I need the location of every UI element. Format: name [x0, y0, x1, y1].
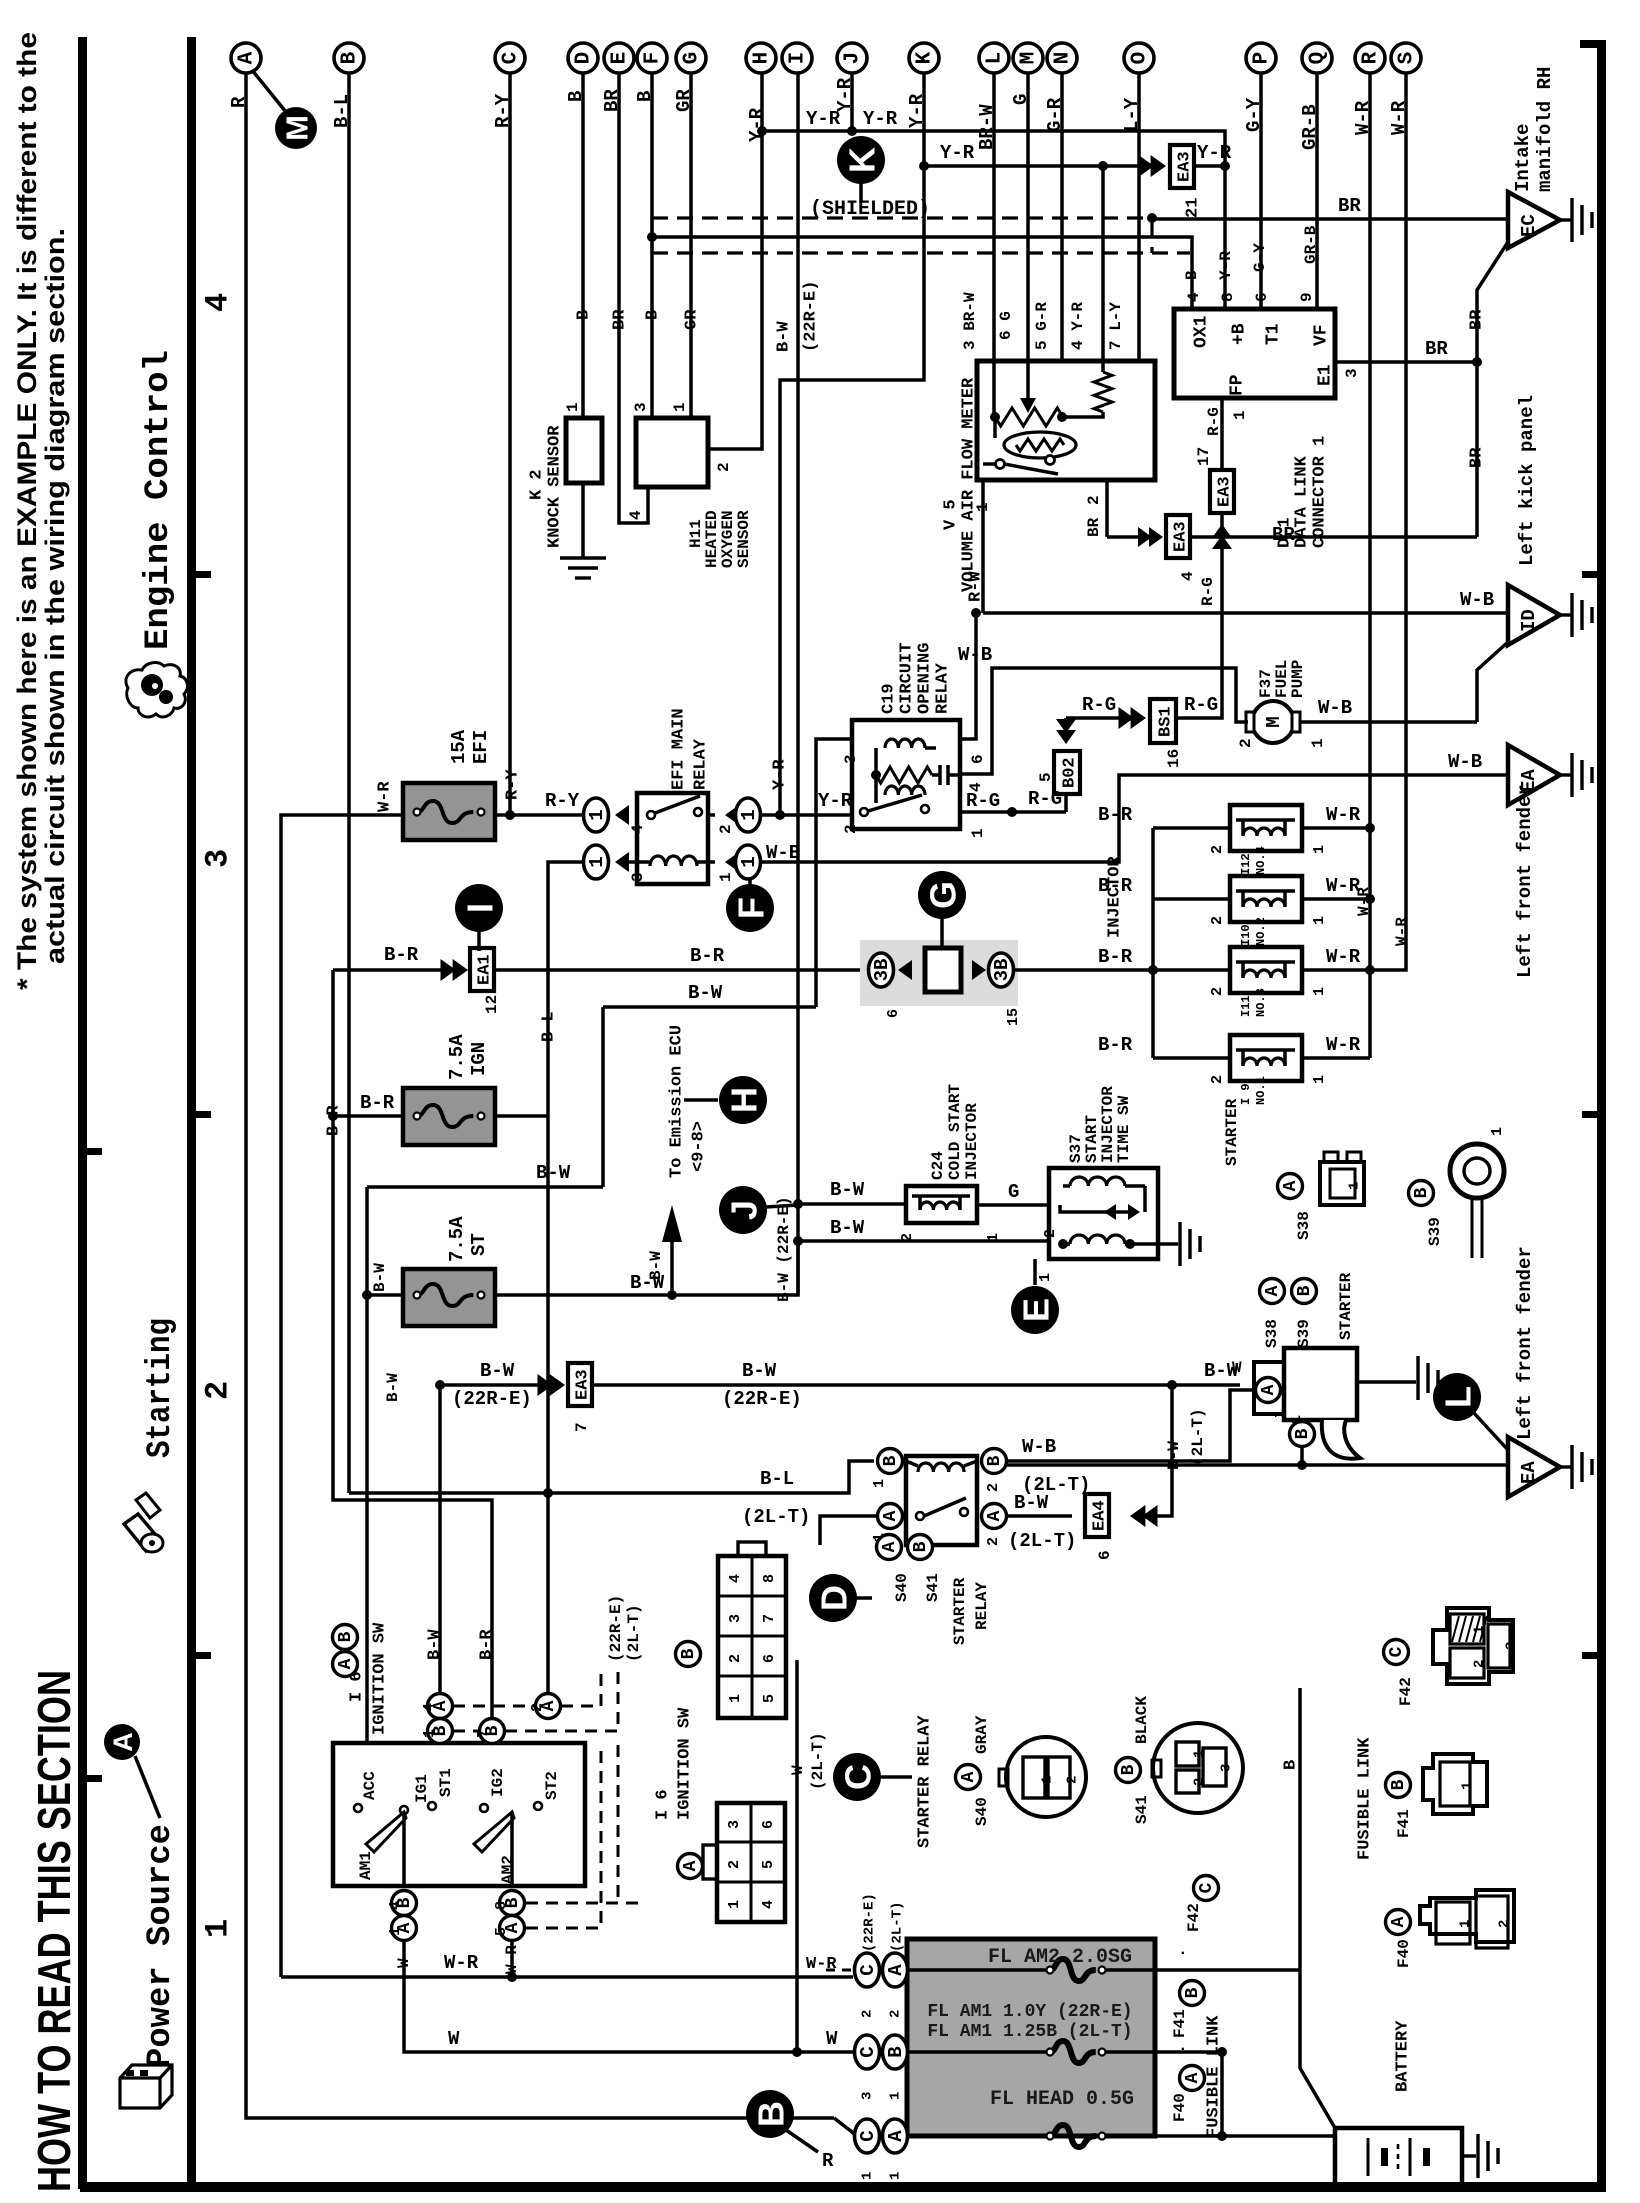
V5 switch [996, 460, 1005, 469]
svg-text:W-R: W-R [444, 1952, 479, 1974]
svg-text:EA4: EA4 [1091, 1500, 1110, 1531]
svg-text:EA: EA [1518, 1461, 1540, 1484]
injector I 9 NO.1 [1153, 1056, 1230, 1060]
svg-text:.: . [1178, 1941, 1188, 1959]
svg-text:2: 2 [985, 1483, 1002, 1492]
starter relay box [906, 1456, 977, 1545]
svg-text:S: S [1396, 52, 1419, 65]
connector circle D [568, 43, 598, 73]
svg-text:3: 3 [200, 849, 237, 868]
connector EA3 (17) [1210, 470, 1234, 513]
svg-text:B-W: B-W [426, 1629, 445, 1660]
svg-text:9: 9 [1298, 292, 1316, 302]
svg-text:A: A [681, 1860, 701, 1871]
connector grid B (2x4) [718, 1556, 786, 1718]
svg-text:J: J [724, 1200, 765, 1220]
svg-text:NO.3: NO.3 [1254, 988, 1268, 1017]
B-W wire to C24 [798, 1202, 906, 1206]
svg-text:B-W: B-W [480, 1360, 515, 1382]
connector circle B [334, 43, 364, 73]
svg-text:R-G: R-G [1028, 788, 1062, 810]
C19 pin3 wire B-W riser [816, 739, 852, 1007]
relay pin1 oval W-B [725, 852, 739, 872]
svg-text:V 5: V 5 [942, 499, 961, 530]
oval 3B (15) [972, 960, 986, 980]
svg-text:(2L-T): (2L-T) [809, 1732, 827, 1790]
engine icon [126, 663, 188, 717]
connector circle O [1124, 43, 1154, 73]
svg-text:3: 3 [632, 402, 650, 412]
connector circle H [746, 43, 776, 73]
svg-text:1: 1 [727, 1694, 744, 1703]
svg-text:STARTER: STARTER [1223, 1098, 1241, 1166]
svg-text:4: 4 [421, 1703, 438, 1712]
oxygen sensor H11 box [636, 418, 708, 487]
wire R-Y from C [508, 73, 512, 815]
connector circle L [979, 43, 1009, 73]
svg-text:(2L-T): (2L-T) [1189, 1408, 1207, 1466]
C24 cold start injector [906, 1186, 977, 1223]
svg-text:BS1: BS1 [1157, 706, 1176, 737]
svg-text:1: 1 [1037, 1273, 1054, 1282]
svg-text:5: 5 [1037, 772, 1055, 782]
svg-text:8: 8 [761, 1574, 778, 1583]
svg-text:W-R: W-R [503, 1945, 521, 1974]
svg-text:B: B [1183, 270, 1201, 280]
W-B wire to EA ground 2 [1007, 1463, 1508, 1467]
B-L wire from relay pin3 down [548, 862, 583, 1705]
ignition bottom pins [392, 1891, 417, 1916]
svg-text:2: 2 [727, 1654, 744, 1663]
svg-text:1: 1 [717, 872, 735, 882]
svg-text:1: 1 [671, 402, 689, 412]
black circle B pointer [746, 2090, 794, 2138]
svg-text:B: B [679, 1648, 699, 1659]
svg-text:B: B [1295, 1285, 1315, 1296]
svg-text:FUSIBLE LINK: FUSIBLE LINK [1205, 2015, 1224, 2138]
fuel pump F37 [1252, 701, 1294, 743]
wire L-Y from O to V5 pin7 [1137, 73, 1141, 362]
svg-text:1: 1 [1489, 1127, 1506, 1136]
svg-text:1: 1 [1231, 410, 1249, 420]
svg-text:AM2: AM2 [499, 1855, 517, 1884]
svg-text:F: F [731, 897, 772, 919]
svg-text:F42: F42 [1397, 1677, 1415, 1706]
svg-text:F42: F42 [1185, 1903, 1203, 1932]
svg-text:1: 1 [1471, 1626, 1487, 1634]
svg-text:A: A [1183, 2072, 1203, 2083]
svg-text:3: 3 [1218, 1764, 1234, 1772]
svg-text:(2L-T): (2L-T) [742, 1506, 810, 1528]
svg-text:K: K [842, 147, 883, 173]
connector EA4 [1130, 1505, 1145, 1527]
FL input ovals row3 R [855, 2119, 880, 2153]
svg-text:2: 2 [1191, 1778, 1207, 1786]
svg-text:C: C [838, 1764, 879, 1790]
svg-text:1: 1 [1457, 1920, 1473, 1928]
dashed links ignition top [453, 1705, 535, 1708]
svg-text:W-R: W-R [1326, 804, 1361, 826]
svg-text:Y-R: Y-R [863, 108, 898, 130]
svg-text:1: 1 [1311, 845, 1328, 854]
svg-text:Y-R: Y-R [940, 142, 975, 164]
svg-text:4: 4 [727, 1574, 744, 1583]
FL HEAD row [907, 2134, 1050, 2138]
svg-text:NO.4: NO.4 [1254, 846, 1268, 875]
S37 start injector time switch box [1049, 1168, 1158, 1259]
svg-text:(22R-E): (22R-E) [802, 281, 821, 352]
svg-text:B-W: B-W [536, 1162, 571, 1184]
svg-text:Left front fender: Left front fender [1514, 1246, 1536, 1440]
ECU shaded strip [860, 940, 1018, 1006]
svg-text:6 G: 6 G [997, 311, 1015, 340]
svg-text:1: 1 [969, 828, 987, 838]
svg-text:B: B [575, 310, 594, 320]
connector EA3 (21) [1170, 145, 1194, 188]
svg-text:BR: BR [1272, 524, 1295, 546]
svg-text:B-W: B-W [647, 1251, 665, 1280]
svg-text:IG2: IG2 [489, 1768, 507, 1797]
svg-text:M: M [1263, 716, 1285, 727]
svg-text:T1: T1 [1263, 323, 1283, 345]
starter relay pin A stub [820, 1516, 877, 1545]
svg-text:6: 6 [1253, 292, 1271, 302]
fuse 7.5A ST [403, 1269, 495, 1326]
svg-text:2: 2 [1064, 1776, 1080, 1784]
svg-text:2: 2 [726, 1860, 743, 1869]
svg-text:2: 2 [200, 1381, 237, 1400]
AM1 wiper [366, 1812, 406, 1852]
svg-text:(22R-E): (22R-E) [452, 1388, 532, 1410]
FL internal riser [1220, 2052, 1224, 2136]
wire G from M to V5 pin6 [1026, 73, 1030, 362]
connector circle A [231, 43, 261, 73]
EC ground triangle [1508, 192, 1560, 248]
black circle G [918, 871, 966, 919]
circled B label for grid [676, 1642, 701, 1667]
svg-text:C: C [857, 2046, 879, 2057]
svg-text:P: P [1251, 52, 1274, 65]
svg-text:3 BR-W: 3 BR-W [961, 292, 979, 350]
svg-text:S40: S40 [973, 1797, 991, 1826]
black circle M with leader from A [252, 70, 286, 112]
E1 pin3 wire BR [1335, 360, 1477, 364]
svg-text:A: A [880, 1541, 900, 1552]
svg-text:W: W [789, 1765, 807, 1775]
svg-text:7.5A: 7.5A [446, 1216, 468, 1262]
svg-text:2: 2 [1085, 495, 1103, 505]
svg-text:7.5A: 7.5A [446, 1034, 468, 1080]
svg-text:manifold RH: manifold RH [1534, 67, 1556, 192]
FL AM1 row [907, 2050, 1050, 2054]
svg-text:G: G [681, 52, 704, 65]
svg-text:B-W: B-W [1014, 1492, 1049, 1514]
svg-text:F40: F40 [1395, 1939, 1413, 1968]
svg-text:O: O [1129, 52, 1152, 65]
C19 pin4 wire W-B to fuel pump [960, 668, 1248, 774]
svg-text:BLACK: BLACK [1133, 1696, 1151, 1744]
svg-text:C: C [1197, 1882, 1217, 1893]
svg-text:15: 15 [1005, 1008, 1022, 1026]
connector circle P [1246, 43, 1276, 73]
svg-text:F41: F41 [1171, 2009, 1189, 2038]
wire BR-W from L to V5 pin3 [992, 73, 996, 362]
svg-text:(22R-E): (22R-E) [607, 1595, 625, 1662]
svg-text:1: 1 [387, 1927, 404, 1936]
connector grid A (2x3) [717, 1803, 785, 1922]
injector I11 NO.3 [1153, 968, 1230, 972]
svg-text:1: 1 [1191, 1750, 1207, 1758]
svg-text:3: 3 [629, 872, 647, 882]
svg-text:2: 2 [1042, 1229, 1059, 1238]
FL AM2 output to B rail [1155, 1968, 1300, 1972]
svg-text:2: 2 [1471, 1660, 1487, 1668]
svg-text:B-R: B-R [478, 1629, 497, 1660]
FP pin1 wire R-G [1220, 398, 1224, 470]
V5 pin1 wire R-W to ID [981, 480, 985, 613]
ID drop to fuel pump [1477, 642, 1508, 722]
svg-text:I 9: I 9 [1239, 1083, 1253, 1105]
W-R long wire [281, 1975, 853, 1979]
svg-text:F41: F41 [1395, 1809, 1413, 1838]
svg-text:SENSOR: SENSOR [735, 510, 753, 568]
svg-text:R-G: R-G [1205, 407, 1223, 436]
wire W-R from R down to injectors [1368, 73, 1372, 1058]
C19 pin1 R-G wire [960, 810, 1066, 814]
svg-text:GRAY: GRAY [973, 1715, 991, 1754]
connector circle K [909, 43, 939, 73]
svg-text:B-L: B-L [540, 1011, 559, 1042]
svg-text:W-R: W-R [1326, 1034, 1361, 1056]
svg-text:F: F [642, 52, 665, 65]
B-W horizontal py1187 [367, 1185, 603, 1189]
svg-text:4: 4 [760, 1900, 777, 1909]
svg-text:1: 1 [1309, 738, 1327, 748]
svg-text:3: 3 [859, 2092, 875, 2100]
FL input ovals row2 W [855, 2035, 880, 2069]
svg-text:EA3: EA3 [1216, 476, 1235, 507]
svg-text:1: 1 [586, 856, 608, 867]
shielded wire to OX1 pin4 [652, 237, 1192, 309]
svg-text:GR: GR [683, 309, 702, 330]
svg-text:4: 4 [1185, 292, 1203, 302]
svg-text:S39: S39 [1426, 1217, 1444, 1246]
svg-text:1: 1 [1311, 1075, 1328, 1084]
connector circle F [637, 43, 667, 73]
svg-text:ST2: ST2 [543, 1771, 561, 1800]
svg-text:BR: BR [1338, 195, 1361, 217]
C19 pin6 wire W-B up [960, 613, 976, 739]
svg-text:GR-B: GR-B [1302, 225, 1320, 264]
B-W riser px603 [601, 1007, 605, 1187]
svg-text:BATTERY: BATTERY [1394, 2020, 1413, 2092]
svg-text:L: L [984, 52, 1007, 65]
W-B wire from relay pin1 to EA ground [761, 775, 1508, 862]
starter pin B wire [1300, 1448, 1304, 1465]
svg-text:STARTER RELAY: STARTER RELAY [916, 1715, 935, 1848]
B-L 2L-T wire [349, 1461, 874, 1493]
svg-text:Y-R: Y-R [818, 790, 853, 812]
To Emission ECU arrow [670, 1218, 674, 1295]
ID ground triangle [1508, 585, 1560, 645]
svg-text:OPENING: OPENING [916, 643, 935, 714]
B-W riser to ignition pin A [438, 1385, 442, 1694]
svg-text:S39: S39 [1295, 1319, 1313, 1348]
svg-text:Power Source: Power Source [142, 1824, 180, 2068]
svg-text:1: 1 [726, 1900, 743, 1909]
svg-text:W-B: W-B [1448, 751, 1482, 773]
frame: left border rule [78, 37, 87, 2189]
ST fuse input stub [367, 1293, 403, 1297]
svg-text:A: A [885, 1964, 907, 1976]
junction EA3-21 to OX1 pin8 [1194, 164, 1225, 168]
svg-text:(22R-E): (22R-E) [722, 1388, 802, 1410]
svg-text:4: 4 [387, 1901, 404, 1910]
svg-text:INJECTOR: INJECTOR [963, 1103, 981, 1180]
svg-text:1: 1 [859, 2172, 875, 2180]
svg-text:B-W: B-W [384, 1373, 402, 1402]
black circle I [455, 884, 503, 932]
wire W-R from S down to injectors [1370, 73, 1406, 970]
svg-text:1: 1 [871, 1479, 888, 1488]
svg-text:RELAY: RELAY [973, 1582, 991, 1630]
svg-text:COLD START: COLD START [946, 1084, 964, 1180]
svg-text:I: I [787, 52, 810, 65]
svg-text:F40: F40 [1171, 2093, 1189, 2122]
svg-text:W-R: W-R [1326, 946, 1361, 968]
svg-text:1: 1 [887, 2172, 903, 2180]
svg-text:3: 3 [842, 754, 860, 764]
svg-text:1: 1 [974, 502, 992, 512]
svg-text:EC: EC [1518, 214, 1540, 237]
wire W-R into EFI fuse [281, 815, 403, 1977]
svg-text:BR: BR [1425, 338, 1448, 360]
AM2 wiper [474, 1812, 514, 1852]
svg-text:Y-R: Y-R [1197, 142, 1232, 164]
labels S40 S41 STARTER RELAY group [809, 1574, 857, 1622]
svg-text:B-W: B-W [742, 1360, 777, 1382]
svg-text:I: I [460, 903, 501, 913]
black circle H [719, 1076, 767, 1124]
EA ground triangle 2 [1508, 1437, 1560, 1497]
svg-text:R-W: R-W [967, 571, 986, 602]
connector circle S [1391, 43, 1421, 73]
svg-text:S40: S40 [893, 1573, 911, 1602]
svg-text:B: B [336, 1631, 356, 1642]
svg-text:5: 5 [493, 1927, 510, 1936]
svg-text:AM1: AM1 [357, 1851, 375, 1880]
svg-text:B: B [1412, 1187, 1432, 1198]
category ticks on left rule [87, 1148, 102, 1155]
svg-text:E: E [609, 52, 632, 65]
svg-text:B-R: B-R [1098, 1034, 1133, 1056]
svg-text:B-W: B-W [371, 1263, 389, 1292]
svg-text:B-R: B-R [1098, 946, 1133, 968]
svg-text:4: 4 [629, 824, 647, 834]
W-B wire to ID ground [983, 611, 1508, 615]
connector EA1 [470, 948, 494, 991]
svg-text:5 G-R: 5 G-R [1033, 302, 1051, 350]
wire G C24 to S37 [977, 1203, 1049, 1207]
svg-text:2: 2 [1237, 738, 1255, 748]
svg-text:3: 3 [1343, 368, 1361, 378]
connector circle Q [1302, 43, 1332, 73]
svg-text:(SHIELDED): (SHIELDED) [810, 198, 930, 221]
svg-text:W: W [826, 2028, 838, 2050]
svg-text:4: 4 [200, 293, 237, 312]
fuse 15A EFI [403, 783, 495, 840]
wire Y-R from J [850, 73, 854, 131]
black circle F [748, 879, 752, 886]
V5 damping chamber [1004, 432, 1076, 458]
svg-text:C: C [500, 51, 523, 64]
svg-text:FUSIBLE LINK: FUSIBLE LINK [1356, 1737, 1375, 1860]
svg-text:FL AM1 1.25B (2L-T): FL AM1 1.25B (2L-T) [927, 2022, 1132, 2042]
svg-text:6: 6 [760, 1820, 777, 1829]
svg-text:B-R: B-R [384, 944, 419, 966]
svg-text:I10: I10 [1239, 924, 1253, 946]
svg-text:<9-8>: <9-8> [690, 1121, 709, 1172]
svg-text:1: 1 [200, 1919, 237, 1938]
frame: header rule [187, 37, 196, 2189]
connector B02 [1056, 730, 1076, 744]
black circle K leader [859, 182, 863, 202]
svg-text:B-R: B-R [690, 945, 725, 967]
svg-text:8: 8 [493, 1901, 510, 1910]
svg-text:B-R: B-R [1098, 875, 1133, 897]
R wire into FL [834, 2118, 854, 2134]
section ticks on right rule [1582, 571, 1597, 578]
wire B-W 22R-E from I down page [796, 73, 800, 1295]
svg-text:+B: +B [1229, 323, 1249, 345]
svg-text:A: A [959, 1771, 979, 1782]
svg-text:5: 5 [760, 1860, 777, 1869]
svg-text:EA3: EA3 [1176, 151, 1195, 182]
V5 pin4 Y-R wire up to bus [1101, 166, 1105, 362]
svg-text:FL AM2 2.0SG: FL AM2 2.0SG [988, 1946, 1132, 1969]
arrow into EA1 [453, 959, 468, 981]
svg-text:Left front fender: Left front fender [1514, 784, 1536, 978]
svg-text:W: W [448, 2028, 460, 2050]
svg-text:6: 6 [761, 1654, 778, 1663]
V5 resistor [1094, 372, 1112, 412]
wire G-R from N to V5 pin5 [1060, 73, 1064, 362]
svg-text:B-L: B-L [760, 1468, 794, 1490]
frame tick top right corner [1580, 40, 1597, 48]
svg-text:I11: I11 [1239, 995, 1253, 1017]
starter icon [124, 1514, 160, 1551]
svg-text:K 2: K 2 [528, 469, 547, 500]
FL AM2 row [907, 1968, 1050, 1972]
svg-text:C: C [857, 2130, 879, 2141]
wire R-Y from EFI fuse to relay [495, 813, 584, 817]
arrow into EA3 21 [1151, 155, 1166, 177]
wire Y-R from K to relay row [780, 73, 924, 815]
svg-text:R-G: R-G [1082, 694, 1116, 716]
svg-text:Starting: Starting [142, 1318, 180, 1458]
svg-text:PUMP: PUMP [1289, 660, 1307, 698]
B-W riser px367 [365, 1187, 369, 1743]
svg-text:W-R: W-R [1393, 917, 1411, 946]
svg-text:NO.1: NO.1 [1254, 1076, 1268, 1105]
BS1 wire R-G [1176, 560, 1222, 718]
svg-text:3: 3 [726, 1820, 743, 1829]
S37 ground [1158, 1242, 1178, 1246]
svg-text:BR: BR [611, 309, 630, 330]
svg-text:6: 6 [1096, 1550, 1114, 1560]
svg-text:(2L-T): (2L-T) [889, 1902, 905, 1952]
svg-text:1: 1 [887, 2092, 903, 2100]
